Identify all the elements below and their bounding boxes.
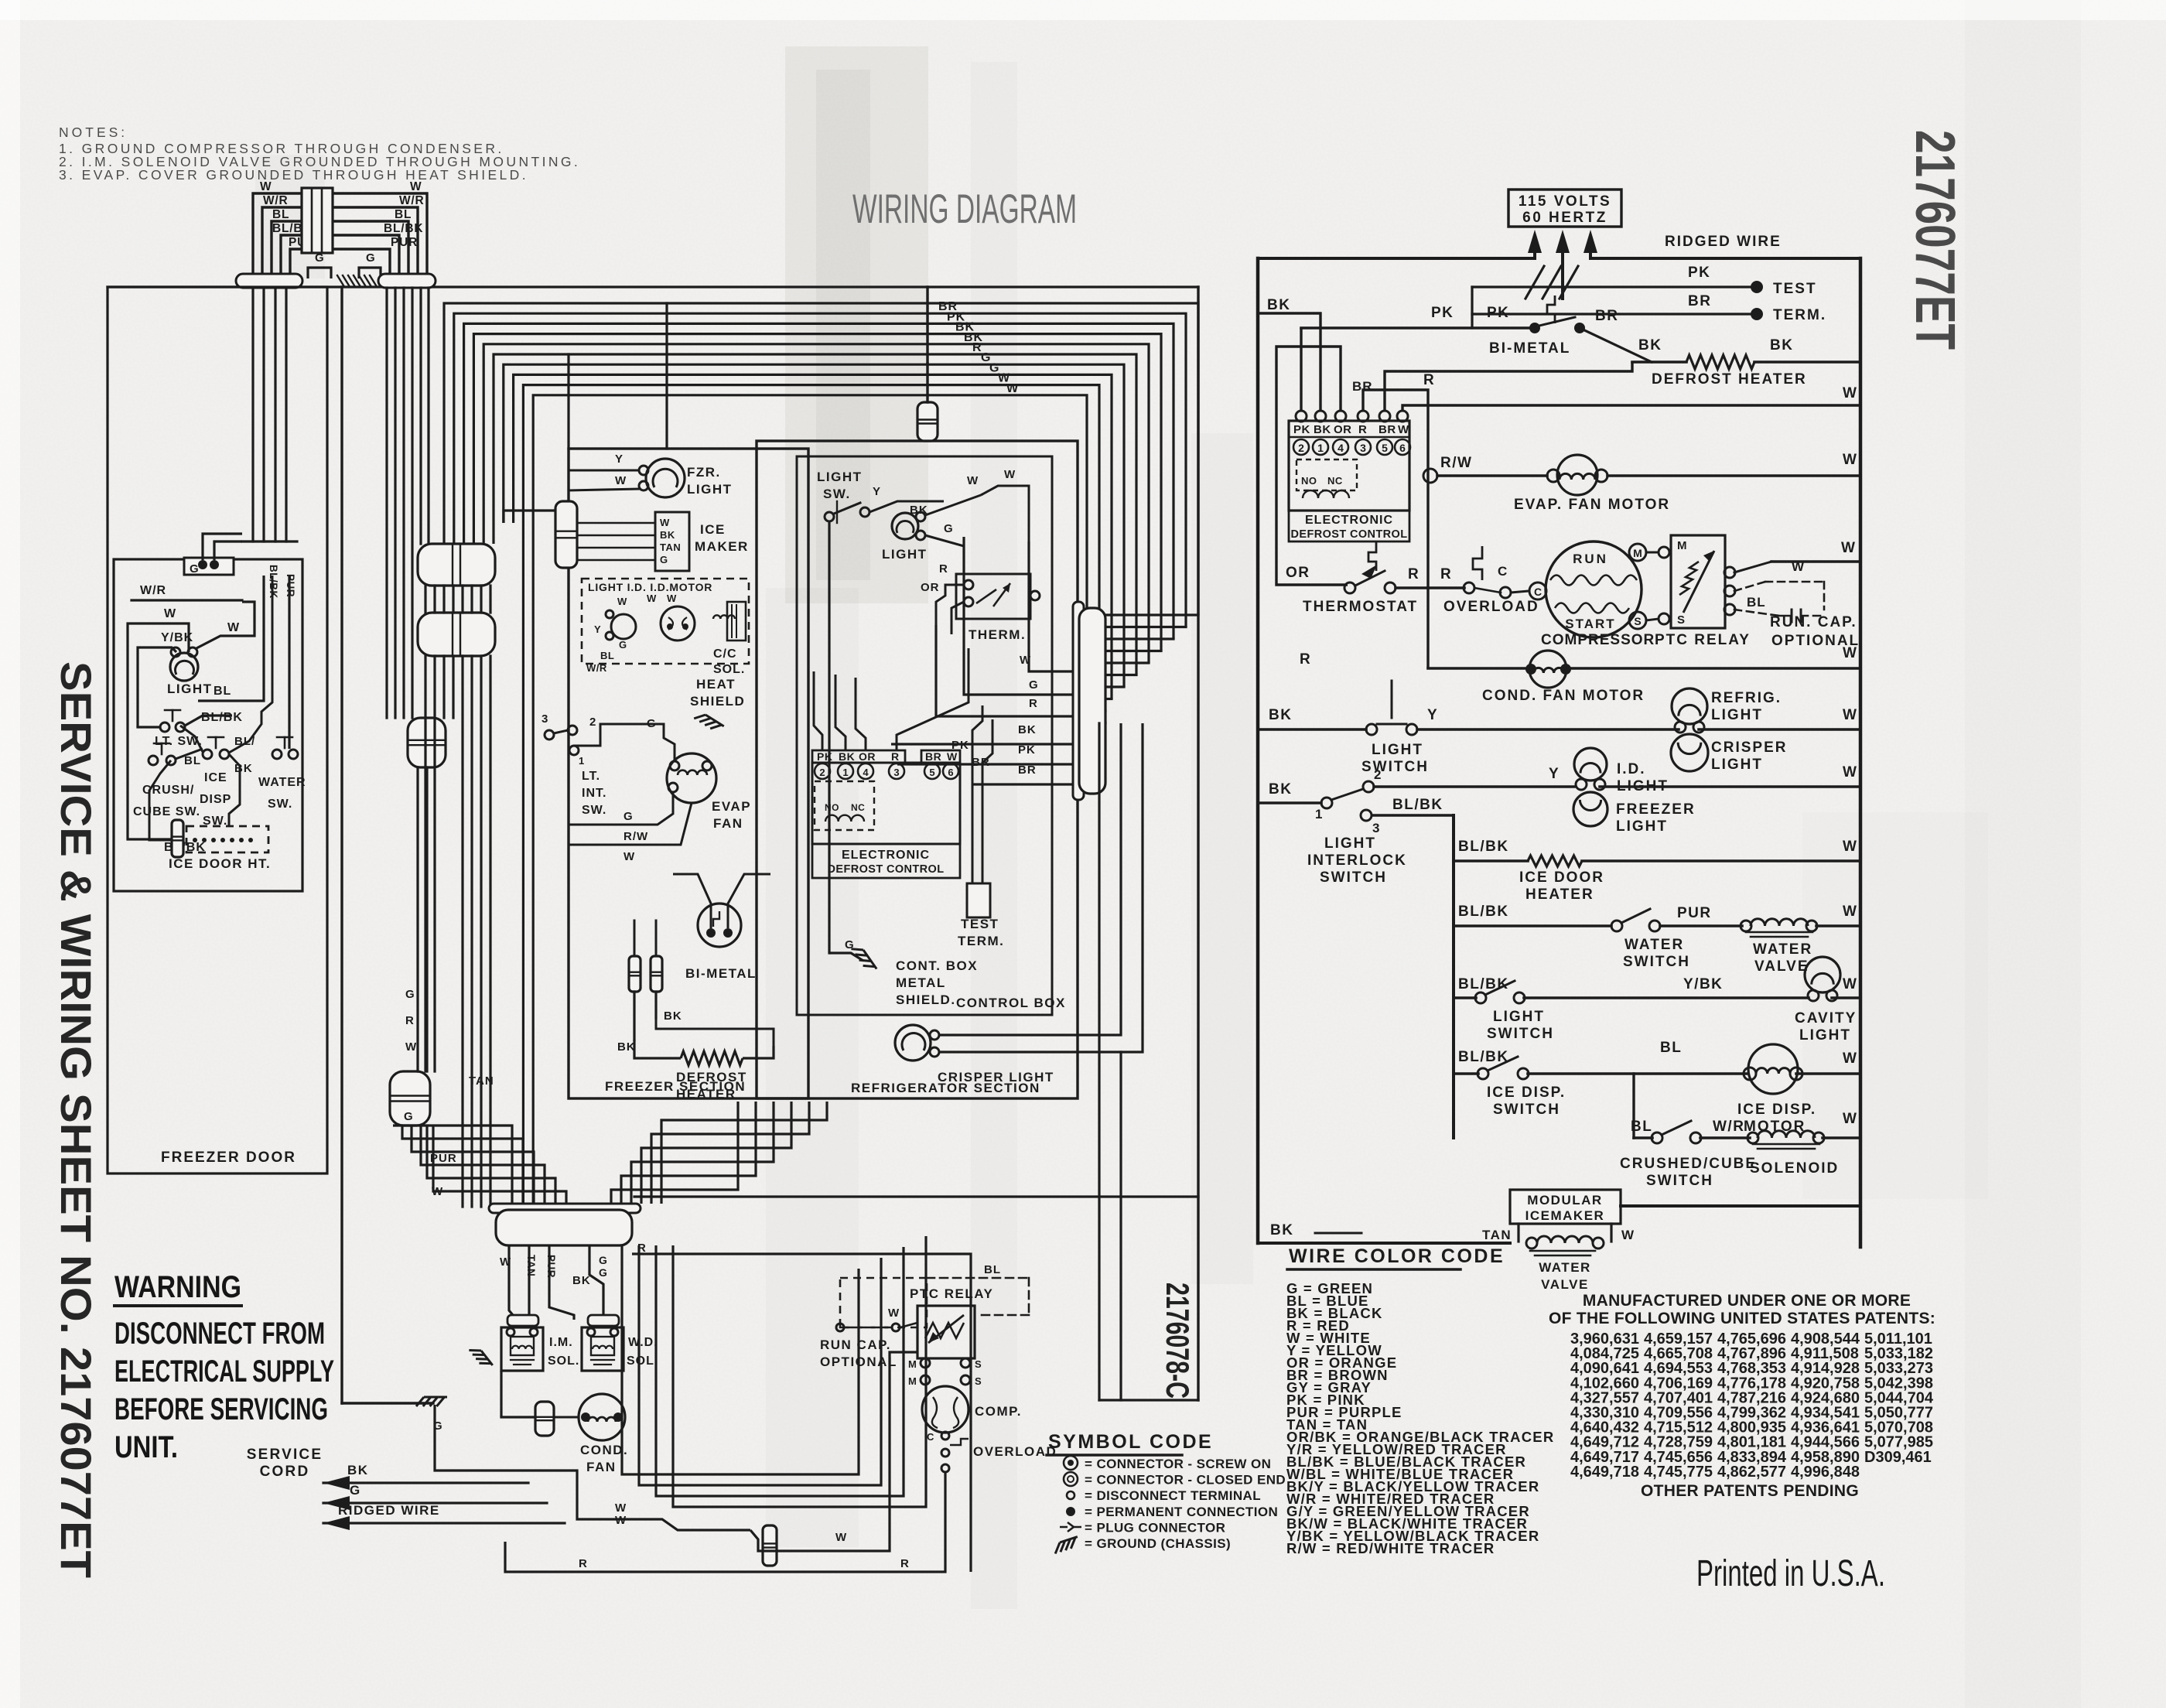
svg-text:W: W [410,180,422,193]
svg-text:1: 1 [1317,442,1324,454]
svg-text:PUR: PUR [391,236,418,249]
svg-text:WIRE COLOR CODE: WIRE COLOR CODE [1289,1245,1505,1267]
refrigerator section box [757,441,1078,1098]
verticals below C3 [416,767,419,1071]
svg-text:W: W [660,517,670,528]
svg-text:METAL: METAL [896,975,946,990]
svg-text:ICE: ICE [700,522,726,537]
svg-text:W: W [967,474,979,487]
svg-text:FAN: FAN [713,816,743,831]
svg-text:PK: PK [1688,265,1710,281]
svg-text:DEFROST CONTROL: DEFROST CONTROL [1291,528,1408,541]
svg-text:60 HERTZ: 60 HERTZ [1522,210,1607,226]
control box inner [797,456,1052,1015]
svg-text:CRISPER: CRISPER [1711,740,1787,756]
svg-text:W: W [432,1185,443,1198]
svg-text:4: 4 [1338,442,1344,454]
svg-text:SW.: SW. [268,798,292,811]
svg-text:BL/BK: BL/BK [268,565,279,599]
svg-text:5: 5 [1382,442,1388,454]
svg-text:Y: Y [1427,707,1438,723]
svg-text:W: W [647,593,657,604]
svg-text:CRUSHED/CUBE: CRUSHED/CUBE [1620,1156,1757,1172]
comp circle (left) [922,1386,969,1433]
svg-text:BK: BK [617,1040,636,1054]
svg-text:FREEZER DOOR: FREEZER DOOR [161,1149,296,1166]
svg-text:W: W [888,1307,900,1320]
svg-text:SWITCH: SWITCH [1646,1173,1713,1189]
svg-text:REFRIG.: REFRIG. [1711,690,1782,706]
run cap optional (right) [1734,562,1771,572]
svg-text:4,745,775: 4,745,775 [1644,1464,1713,1481]
top supply line [1258,257,1535,260]
FREEZER DOOR box [108,287,327,1173]
svg-text:PUR: PUR [285,574,296,597]
svg-text:LIGHT: LIGHT [687,482,733,497]
svg-text:CORD: CORD [260,1464,310,1480]
svg-text:LIGHT: LIGHT [1493,1009,1545,1025]
svg-text:R: R [900,1557,910,1570]
svg-text:W: W [1843,707,1857,723]
svg-text:OR: OR [859,750,876,763]
svg-text:5: 5 [929,767,934,778]
svg-text:2: 2 [1374,767,1382,782]
svg-text:NOTES:: NOTES: [59,125,128,140]
IM / WD solenoid boxes [507,1315,538,1326]
svg-text:PTC RELAY: PTC RELAY [1655,632,1751,648]
svg-text:Y: Y [1549,766,1560,782]
svg-text:115 VOLTS: 115 VOLTS [1519,193,1611,210]
svg-text:BL/BK: BL/BK [1392,797,1443,813]
svg-text:CRISPER LIGHT: CRISPER LIGHT [938,1070,1054,1085]
svg-text:S: S [1634,615,1641,627]
svg-text:G: G [366,251,376,265]
svg-text:BK: BK [1638,337,1662,354]
svg-text:HEATER: HEATER [1525,886,1594,903]
svg-text:BK: BK [1269,781,1292,798]
svg-text:3. EVAP. COVER GROUNDED THRO: 3. EVAP. COVER GROUNDED THROUGH HEAT SHI… [59,167,528,183]
svg-text:W: W [947,750,958,763]
svg-text:BI-METAL: BI-METAL [1489,340,1570,357]
evap fan [667,753,716,803]
svg-text:TEST: TEST [961,917,999,931]
svg-text:BK: BK [1270,1222,1293,1238]
svg-text:PK: PK [951,739,969,752]
svg-text:I.M.: I.M. [549,1336,573,1349]
svg-text:BL/BK: BL/BK [201,711,243,724]
svg-text:ICE: ICE [204,771,227,784]
ice door heater component [149,822,172,840]
svg-text:W/R: W/R [1713,1119,1744,1135]
svg-text:CONTROL BOX: CONTROL BOX [956,996,1066,1010]
svg-text:C: C [1498,564,1508,579]
svg-text:W: W [260,180,272,193]
svg-text:ELECTRONIC: ELECTRONIC [1305,514,1393,527]
connector block top [302,188,333,253]
svg-text:BK: BK [1267,297,1290,313]
svg-text:BK: BK [839,750,855,763]
supply arrows [1533,242,1536,258]
svg-text:W/R: W/R [263,194,289,207]
svg-text:C/C: C/C [713,647,737,661]
svg-text:BK: BK [572,1274,591,1287]
svg-text:CUBE SW.: CUBE SW. [133,805,200,818]
svg-text:OR: OR [1286,565,1310,581]
svg-text:SWITCH: SWITCH [1493,1102,1560,1118]
svg-text:PK: PK [1487,305,1509,321]
svg-text:W: W [1843,1111,1857,1127]
light refrigerator [892,513,918,539]
wires from connector right to fan [632,1254,971,1572]
therm [956,574,1030,619]
svg-text:Y/BK: Y/BK [1683,976,1723,992]
svg-text:= PLUG CONNECTOR: = PLUG CONNECTOR [1085,1520,1225,1535]
svg-text:FREEZER: FREEZER [1616,801,1696,818]
svg-text:W: W [617,596,627,607]
svg-text:OPTIONAL: OPTIONAL [820,1354,897,1369]
svg-text:SWITCH: SWITCH [1487,1026,1554,1042]
svg-text:LIGHT: LIGHT [1711,757,1763,773]
svg-text:W: W [1841,540,1856,556]
cond fan [535,1402,554,1436]
fz door light [170,653,198,681]
svg-text:BEFORE SERVICING: BEFORE SERVICING [114,1392,328,1426]
svg-text:BK: BK [347,1463,369,1477]
svg-text:BK: BK [1018,723,1037,736]
svg-text:M: M [1677,539,1687,552]
svg-text:BK: BK [660,529,675,541]
svg-text:PTC RELAY: PTC RELAY [910,1286,993,1301]
svg-text:= CONNECTOR - CLOSED END: = CONNECTOR - CLOSED END [1085,1473,1286,1488]
svg-text:OF THE FOLLOWING UNITED STATES: OF THE FOLLOWING UNITED STATES PATENTS: [1549,1310,1935,1327]
svg-text:G: G [1029,678,1039,692]
svg-text:RIDGED WIRE: RIDGED WIRE [1665,234,1782,250]
svg-text:VALVE: VALVE [1541,1277,1589,1292]
svg-text:S: S [975,1375,982,1387]
svg-text:BL: BL [272,208,289,221]
svg-text:C: C [927,1431,934,1443]
wires from refrigerator side into big connector [611,1102,738,1204]
svg-text:PUR: PUR [1677,905,1712,921]
svg-text:COMPRESSOR: COMPRESSOR [1541,632,1655,648]
svg-text:W: W [1843,385,1857,401]
refrig light [1672,688,1707,724]
svg-text:BL: BL [1747,595,1766,610]
svg-text:Y: Y [615,453,623,466]
svg-text:START: START [1565,617,1615,631]
right edge connector C14 [1073,602,1084,800]
svg-text:OTHER PATENTS PENDING: OTHER PATENTS PENDING [1641,1482,1859,1500]
svg-text:ICE DISP.: ICE DISP. [1487,1085,1566,1101]
big bottom connector [489,1204,641,1213]
PTC relay box [1671,535,1725,628]
svg-text:3: 3 [1372,821,1380,835]
svg-text:FAN: FAN [586,1460,617,1474]
ice disp sw [203,750,212,759]
svg-text:Printed in U.S.A.: Printed in U.S.A. [1696,1553,1885,1594]
svg-text:RUN CAP.: RUN CAP. [820,1337,891,1352]
bus lines with corner drops [444,303,1198,615]
svg-text:G: G [599,1254,607,1266]
svg-text:SW.: SW. [823,487,851,501]
svg-text:THERMOSTAT: THERMOSTAT [1303,599,1418,615]
svg-text:W: W [405,1040,417,1054]
crushed cube rung [1632,1074,1635,1138]
svg-text:R: R [1423,372,1435,388]
svg-text:HEATER: HEATER [676,1087,736,1102]
svg-text:R/W: R/W [1440,455,1472,471]
freezer section box [569,449,808,1098]
svg-text:R: R [939,562,948,576]
svg-text:RUN: RUN [1573,552,1608,566]
svg-text:BK: BK [910,504,928,517]
fzr light [646,459,685,497]
svg-text:R: R [1029,697,1038,710]
svg-text:TAN: TAN [660,541,681,553]
svg-text:SERVICE & WIRING SHEET NO. 217: SERVICE & WIRING SHEET NO. 2176077ET [52,661,101,1578]
svg-text:SWITCH: SWITCH [1623,954,1690,970]
svg-text:I.D.: I.D. [1617,761,1646,777]
svg-text:ELECTRICAL SUPPLY: ELECTRICAL SUPPLY [114,1354,334,1389]
svg-text:UNIT.: UNIT. [114,1430,178,1464]
svg-text:G: G [599,1266,607,1279]
svg-text:C: C [1534,586,1542,598]
svg-text:BR: BR [1379,423,1396,436]
svg-text:BL: BL [600,650,614,661]
svg-text:W: W [1792,559,1805,574]
ground at supply [1525,266,1544,299]
svg-text:SOL.: SOL. [627,1354,658,1368]
svg-text:G: G [190,562,200,576]
svg-text:W: W [1843,976,1857,992]
inline connectors + defrost heater [629,956,641,992]
run cap optional dashed (left) [840,1278,927,1327]
svg-text:BI-METAL: BI-METAL [685,966,757,981]
svg-text:DEFROST HEATER: DEFROST HEATER [1652,371,1807,388]
svg-text:SWITCH: SWITCH [1361,759,1429,775]
svg-text:2: 2 [819,767,825,778]
svg-text:PK: PK [1431,305,1454,321]
top entry plug [917,402,938,441]
left assembly top boundary line [108,285,1198,288]
svg-text:BL: BL [184,754,201,767]
svg-text:TERM.: TERM. [958,934,1004,948]
svg-text:G: G [944,522,954,535]
svg-text:W: W [1843,1050,1857,1067]
svg-text:SHIELD: SHIELD [690,694,745,709]
svg-text:BL/BK: BL/BK [1458,976,1509,992]
svg-text:RIDGED WIRE: RIDGED WIRE [338,1503,440,1518]
svg-text:W.D.: W.D. [628,1336,658,1349]
svg-text:W: W [667,593,677,604]
interlock terminal 3 and BL/BK branch [1361,810,1372,821]
svg-text:R/W = RED/WHITE TRACER: R/W = RED/WHITE TRACER [1286,1540,1495,1556]
svg-text:LT.: LT. [582,770,600,783]
svg-text:EVAP: EVAP [712,799,751,814]
svg-text:W/R: W/R [586,662,607,674]
refrigerator box left edge drop to connector [641,1098,785,1197]
svg-text:SERVICE: SERVICE [247,1447,323,1463]
fz door G entry connector [184,558,234,575]
ice maker [555,501,577,568]
BL/BK sub ladder rail [1452,815,1455,1138]
svg-text:NO: NO [1301,475,1317,487]
svg-text:WATER: WATER [1753,941,1812,958]
svg-text:COMP.: COMP. [975,1404,1022,1419]
svg-text:MODULAR: MODULAR [1527,1193,1602,1208]
svg-text:TEST: TEST [1773,281,1817,297]
svg-text:SOL.: SOL. [713,663,745,676]
svg-text:OR: OR [1334,423,1352,436]
G wire + ground service [416,1397,447,1406]
svg-text:BR: BR [925,750,941,763]
svg-text:4,996,848: 4,996,848 [1791,1464,1860,1481]
svg-text:R: R [1408,566,1420,582]
svg-text:EVAP. FAN MOTOR: EVAP. FAN MOTOR [1514,497,1670,513]
flange connectors on top line [236,274,302,288]
svg-text:CAVITY: CAVITY [1795,1010,1857,1027]
cavity light [1805,957,1840,992]
svg-text:OR: OR [921,581,940,594]
staircase fan from C4 to big bottom connector [393,1126,512,1207]
svg-text:ICEMAKER: ICEMAKER [1525,1208,1605,1223]
svg-text:S: S [975,1358,982,1370]
svg-text:BR: BR [1018,763,1037,777]
svg-text:6: 6 [948,767,953,778]
svg-text:1: 1 [579,755,585,767]
svg-text:BL: BL [984,1263,1001,1276]
svg-text:G: G [404,1110,414,1123]
bus wrap into connector C14 [1105,613,1198,616]
bi-metal to defrost heater diagonal [1580,328,1652,362]
svg-text:BL/BK: BL/BK [384,222,423,235]
verticals between C1 and C2 [424,586,426,613]
svg-text:R: R [1358,423,1367,436]
svg-text:RUN. CAP.: RUN. CAP. [1770,614,1857,630]
ID light [1574,748,1607,781]
svg-text:LIGHT: LIGHT [817,470,863,484]
svg-text:BR: BR [1595,308,1618,324]
svg-text:NC: NC [1327,475,1343,487]
svg-text:WATER: WATER [258,776,306,789]
overload [1464,582,1474,593]
svg-text:PUR: PUR [545,1255,557,1278]
svg-text:LIGHT: LIGHT [1616,818,1668,835]
right-side long verticals [1098,723,1100,1400]
svg-text:BK: BK [1269,707,1292,723]
svg-text:Y: Y [873,485,881,498]
svg-text:= CONNECTOR - SCREW ON: = CONNECTOR - SCREW ON [1085,1457,1271,1471]
svg-text:= PERMANENT CONNECTION: = PERMANENT CONNECTION [1085,1505,1278,1519]
verticals below C2 [424,656,426,1071]
svg-text:DISCONNECT FROM: DISCONNECT FROM [114,1317,325,1351]
svg-text:LIGHT: LIGHT [167,681,213,696]
svg-text:= GROUND (CHASSIS): = GROUND (CHASSIS) [1085,1536,1231,1551]
115 volts 60 hertz box [1508,190,1621,227]
svg-text:NC: NC [851,802,865,813]
svg-text:INT.: INT. [582,787,606,800]
right rail bottom link [1621,1204,1860,1208]
compressor [1546,541,1642,637]
svg-text:3: 3 [1360,442,1366,454]
svg-text:LIGHT: LIGHT [1324,835,1376,852]
svg-text:LIGHT: LIGHT [1372,742,1423,758]
svg-text:S: S [1677,613,1686,627]
left rail [1256,258,1260,1243]
svg-text:CONT. BOX: CONT. BOX [896,958,978,973]
svg-text:ICE DISP.: ICE DISP. [1737,1102,1816,1118]
svg-text:G: G [315,251,325,265]
svg-text:W: W [835,1531,847,1544]
svg-text:G: G [405,988,415,1001]
svg-text:BR: BR [1352,379,1373,394]
svg-text:R: R [1300,651,1311,668]
svg-text:VALVE: VALVE [1754,958,1809,975]
svg-text:BL/BK: BL/BK [1458,1049,1509,1065]
svg-text:G: G [623,810,634,823]
svg-text:OVERLOAD: OVERLOAD [1443,599,1539,615]
svg-text:M: M [1633,547,1642,559]
crisper light left [895,1025,931,1061]
ground at IM sol [469,1344,492,1371]
wires above defrost control [814,671,822,750]
svg-text:2176077ET: 2176077ET [1904,130,1966,350]
svg-text:MANUFACTURED UNDER ONE OR MORE: MANUFACTURED UNDER ONE OR MORE [1583,1292,1911,1310]
svg-text:THERM.: THERM. [969,627,1026,642]
svg-text:SOLENOID: SOLENOID [1750,1160,1839,1177]
svg-text:BK: BK [664,1009,682,1023]
svg-text:SOL.: SOL. [548,1354,579,1368]
svg-text:OVERLOAD: OVERLOAD [973,1444,1057,1459]
svg-text:LIGHT: LIGHT [1799,1027,1851,1044]
svg-text:W: W [1843,764,1857,781]
light id motor dashed box [582,579,749,664]
svg-text:TAN: TAN [469,1074,494,1088]
svg-text:M: M [908,1358,917,1370]
freezer door inner box [114,559,302,891]
svg-text:BL: BL [1631,1119,1652,1135]
svg-text:2: 2 [1298,442,1304,454]
svg-text:ICE DOOR: ICE DOOR [1519,869,1604,886]
svg-text:R: R [1440,566,1452,582]
svg-text:MAKER: MAKER [695,539,749,554]
crush cube sw [149,756,158,765]
svg-text:2176078-C: 2176078-C [1160,1283,1196,1399]
svg-text:M: M [908,1375,917,1387]
left assembly left edge [340,287,343,1403]
svg-text:1: 1 [842,767,848,778]
svg-text:D309,461: D309,461 [1864,1449,1932,1466]
svg-text:DEFROST CONTROL: DEFROST CONTROL [828,863,945,876]
svg-text:G: G [660,554,668,565]
water sw [272,750,282,759]
svg-text:W: W [227,621,240,634]
svg-text:G: G [350,1483,361,1498]
svg-text:PK: PK [1293,423,1310,436]
svg-text:BL/BK: BL/BK [1458,839,1509,855]
svg-text:LIGHT I.D. I.D.MOTOR: LIGHT I.D. I.D.MOTOR [588,581,712,593]
svg-text:WATER: WATER [1624,937,1684,953]
electronic defrost control (right) [1289,421,1409,511]
svg-text:W: W [1843,904,1857,920]
svg-text:FZR.: FZR. [687,465,721,480]
lt sw [160,722,169,732]
svg-text:BL: BL [395,208,412,221]
svg-text:SYMBOL CODE: SYMBOL CODE [1048,1431,1213,1453]
svg-text:SW.: SW. [582,804,606,817]
svg-text:DISP: DISP [200,793,231,806]
svg-text:W: W [1398,423,1409,436]
